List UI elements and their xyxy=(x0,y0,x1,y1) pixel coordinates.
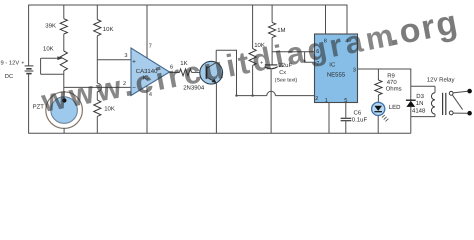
wire op-amp pin2 input xyxy=(64,86,131,88)
svg-text:12V Relay: 12V Relay xyxy=(427,76,455,83)
label 555 pin 3 xyxy=(353,67,356,73)
op-amp U1 CA3140 xyxy=(131,48,170,96)
wire cap to ground xyxy=(270,70,272,134)
wire top supply rail xyxy=(28,4,347,6)
diode D3 1N4148 xyxy=(406,86,426,133)
piezo transducer PZT xyxy=(33,91,83,128)
wire hop over cap column xyxy=(267,91,276,95)
LED D2 xyxy=(372,102,402,121)
resistor R9 470 Ohms xyxy=(375,69,402,95)
junction trigger node xyxy=(235,94,254,96)
svg-text:7: 7 xyxy=(149,43,152,49)
svg-text:10K: 10K xyxy=(43,45,54,52)
wire 555 pin7 jog xyxy=(305,52,315,62)
watermark org xyxy=(385,3,461,54)
resistor 10K lower divider xyxy=(94,100,115,116)
wire ground bottom rail xyxy=(28,132,411,134)
svg-text:9 - 12V: 9 - 12V xyxy=(1,60,20,67)
wire 555 pin8 to rail xyxy=(325,5,327,34)
wire R9 to LED xyxy=(377,95,379,103)
wire pot to PZT xyxy=(63,71,65,101)
wire emitter to ground xyxy=(215,83,217,133)
wire 10K to trigger node xyxy=(252,65,254,95)
relay RL1 12V xyxy=(427,76,472,116)
label 555 pin 7 xyxy=(316,61,319,67)
wire 555 pin4 to rail xyxy=(346,5,348,34)
label 555 pin 5 xyxy=(344,98,347,104)
svg-text:39K: 39K xyxy=(45,23,56,30)
resistor 1K xyxy=(179,60,191,76)
label 555 pin 1 xyxy=(325,98,328,104)
resistor 39K xyxy=(45,5,67,34)
IC U2 NE555 xyxy=(315,34,358,103)
label pin 7 xyxy=(149,43,152,49)
svg-text:C6: C6 xyxy=(354,110,362,117)
label 555 pin 6 xyxy=(316,49,319,55)
wire 555 pin3 output xyxy=(358,69,411,86)
wire PZT to ground xyxy=(63,128,65,133)
watermark xyxy=(38,17,400,119)
wire collector bridge xyxy=(216,50,236,95)
wire hop to lower 10K xyxy=(96,92,98,101)
wire collector up xyxy=(215,50,217,62)
resistor 1M xyxy=(269,5,286,38)
wire relay bottom return xyxy=(411,116,435,118)
svg-text:10K: 10K xyxy=(103,26,114,33)
svg-text:1: 1 xyxy=(325,98,328,104)
label 555 pin 4 xyxy=(345,39,348,45)
wire 39K to pot xyxy=(63,34,65,51)
label pin 4 xyxy=(149,92,152,98)
label 9-12V DC xyxy=(1,60,20,81)
svg-text:NE555: NE555 xyxy=(327,71,346,78)
potentiometer 10K xyxy=(41,45,68,74)
label 555 pin 2 xyxy=(315,96,318,102)
wire 1M to junction xyxy=(271,38,273,65)
wire 555 pin6 xyxy=(272,51,314,53)
transistor Q1 2N3904 xyxy=(183,61,222,91)
svg-text:470: 470 xyxy=(387,79,398,86)
svg-text:0.1uF: 0.1uF xyxy=(352,117,368,124)
battery B1 9-12V xyxy=(21,5,33,133)
wire divider node to pin3 junction xyxy=(96,36,98,83)
capacitor Cx .22uF xyxy=(260,60,298,83)
wire 555 pin1 to ground xyxy=(328,103,330,134)
wire relay top feed xyxy=(411,85,435,87)
wire op-amp pin7 to rail xyxy=(146,5,148,58)
svg-text:(See text): (See text) xyxy=(275,78,298,84)
svg-text:+: + xyxy=(21,60,24,66)
wire op-amp output xyxy=(170,71,180,73)
resistor 10K trigger pullup xyxy=(249,5,265,65)
label pin 3 xyxy=(124,53,127,59)
svg-text:2: 2 xyxy=(315,96,318,102)
svg-text:Ohms: Ohms xyxy=(386,86,402,93)
svg-text:3: 3 xyxy=(353,67,356,73)
svg-text:LED: LED xyxy=(389,104,401,111)
wire C6 to ground xyxy=(345,121,347,134)
capacitor C6 0.1uF xyxy=(341,110,368,124)
wire 555 pin5 to C6 xyxy=(345,103,347,118)
wire hop to 555 pin2 xyxy=(275,95,314,97)
svg-text:DC: DC xyxy=(5,73,13,80)
wire lower 10K to ground xyxy=(96,116,98,133)
wire trigger node to 555 pin2 xyxy=(237,95,267,97)
wire hop over pin2 wire xyxy=(97,83,101,91)
wire LED to ground xyxy=(377,116,379,134)
label 555 pin 8 xyxy=(324,39,327,45)
svg-text:1N: 1N xyxy=(416,100,424,107)
svg-text:.org: .org xyxy=(385,3,461,54)
svg-text:1M: 1M xyxy=(277,27,285,34)
wire 1K to base xyxy=(192,71,207,73)
svg-text:3: 3 xyxy=(124,53,127,59)
svg-text:D3: D3 xyxy=(416,93,424,100)
svg-text:R9: R9 xyxy=(387,73,395,80)
resistor 10K upper divider xyxy=(94,5,114,36)
svg-text:+: + xyxy=(132,58,136,65)
svg-text:4148: 4148 xyxy=(412,107,426,114)
wire op-amp pin4 to ground xyxy=(146,86,148,134)
wire op-amp pin3 input xyxy=(97,59,131,61)
label pin 2 xyxy=(123,81,126,87)
label pin 6 xyxy=(170,64,173,70)
